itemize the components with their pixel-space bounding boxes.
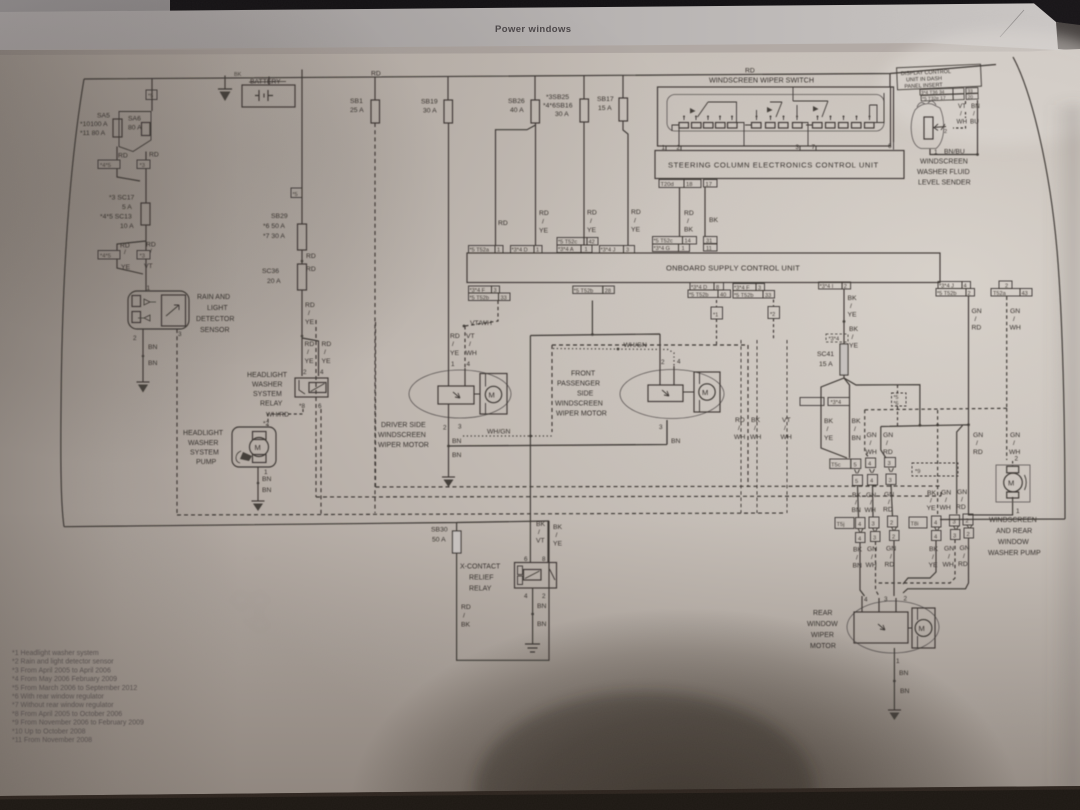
svg-text:*2: *2	[770, 312, 775, 318]
dashed wire T52b33 to driver motor pin 4	[465, 301, 498, 369]
svg-text:WIPER: WIPER	[811, 632, 834, 639]
svg-text:1: 1	[264, 469, 268, 476]
svg-text:33: 33	[501, 296, 507, 302]
solid bus to pump	[881, 425, 1013, 515]
footnotes	[12, 650, 144, 744]
switch bank 2	[745, 102, 808, 146]
fuse SB29	[298, 224, 307, 250]
svg-text:3: 3	[872, 522, 875, 528]
svg-text:RELAY: RELAY	[260, 401, 283, 408]
wire SB17 to J3 connector	[623, 121, 628, 246]
svg-text:WH: WH	[781, 434, 792, 441]
wire SC41 split left/right	[821, 375, 920, 458]
svg-text:4: 4	[677, 359, 681, 366]
svg-text:YE: YE	[587, 227, 597, 234]
svg-text:1: 1	[682, 246, 685, 252]
svg-text:40: 40	[720, 293, 726, 299]
labels below T5j	[853, 546, 897, 570]
svg-text:5: 5	[855, 479, 858, 485]
svg-text:RD: RD	[306, 266, 316, 273]
svg-text:BK: BK	[461, 622, 471, 629]
svg-text:BK: BK	[927, 490, 937, 497]
svg-text:2: 2	[1015, 456, 1019, 463]
svg-text:VT: VT	[958, 103, 966, 110]
svg-text:30 A: 30 A	[423, 108, 437, 115]
svg-text:40 A: 40 A	[510, 107, 524, 114]
svg-text:BK: BK	[751, 417, 761, 424]
battery ground	[218, 76, 232, 102]
svg-text:SIDE: SIDE	[577, 391, 594, 398]
svg-text:*5 T52b: *5 T52b	[937, 291, 957, 297]
svg-text:RD: RD	[450, 333, 460, 340]
svg-text:SB17: SB17	[597, 96, 614, 103]
svg-text:*5 T32e 17: *5 T32e 17	[922, 95, 946, 102]
fuse SC17/SC13	[141, 203, 150, 225]
svg-text:*10 Up to October 2008: *10 Up to October 2008	[12, 728, 86, 735]
svg-text:6: 6	[524, 556, 528, 563]
svg-text:3: 3	[953, 534, 956, 540]
svg-text:/: /	[854, 426, 856, 433]
fuse SB26	[531, 100, 540, 123]
svg-text:SENSOR: SENSOR	[200, 327, 230, 334]
svg-text:28: 28	[605, 289, 611, 295]
wiper motor driver side V	[409, 368, 511, 418]
svg-text:/: /	[590, 218, 592, 225]
svg-text:VT: VT	[144, 263, 153, 270]
svg-text:WASHER FLUID: WASHER FLUID	[917, 169, 970, 176]
svg-text:RD: RD	[118, 153, 128, 160]
svg-text:*6 With rear window regulator: *6 With rear window regulator	[12, 694, 104, 701]
option box *3	[137, 160, 150, 169]
svg-text:*8 From April 2005 to October: *8 From April 2005 to October 2006	[12, 711, 122, 718]
svg-text:*7 Without rear window regulat: *7 Without rear window regulator	[12, 702, 114, 709]
svg-text:BK: BK	[848, 295, 858, 302]
svg-text:*3*4 A: *3*4 A	[558, 247, 574, 253]
svg-text:/: /	[961, 497, 963, 504]
svg-text:BU: BU	[970, 119, 979, 126]
svg-text:SC36: SC36	[262, 268, 279, 275]
svg-text:/: /	[870, 500, 872, 507]
svg-text:LEVEL SENDER: LEVEL SENDER	[918, 180, 971, 187]
svg-text:GN: GN	[1010, 432, 1020, 439]
svg-text:HEADLIGHT: HEADLIGHT	[247, 372, 288, 379]
svg-text:/: /	[324, 349, 326, 356]
svg-text:DETECTOR: DETECTOR	[196, 316, 234, 323]
svg-text:BK: BK	[709, 217, 719, 224]
svg-text:*1: *1	[713, 313, 718, 319]
svg-text:T20d: T20d	[661, 182, 674, 188]
svg-text:*4*5: *4*5	[100, 254, 111, 260]
svg-text:RD: RD	[305, 341, 315, 348]
svg-text:WASHER PUMP: WASHER PUMP	[988, 550, 1041, 557]
svg-text:DRIVER SIDE: DRIVER SIDE	[381, 422, 426, 429]
wire SB29 feed	[301, 70, 303, 225]
svg-text:SB1: SB1	[350, 98, 363, 105]
svg-text:WH: WH	[750, 434, 761, 441]
wire SCECU 18 to OSCU	[679, 188, 681, 237]
fuse SC36	[298, 264, 307, 290]
svg-text:RD: RD	[631, 209, 641, 216]
svg-text:18: 18	[686, 182, 692, 188]
svg-text:4: 4	[467, 361, 471, 368]
svg-text:/: /	[827, 426, 829, 433]
svg-text:/: /	[886, 440, 888, 447]
wire pump to ground	[257, 467, 259, 501]
svg-text:BN: BN	[899, 670, 909, 677]
svg-text:RD: RD	[149, 152, 159, 159]
bottom dark table strip	[0, 786, 1080, 810]
X-contact relief relay enclosure with SB30	[457, 521, 549, 661]
connector *3*4 J 3	[600, 246, 635, 254]
svg-text:*5: *5	[293, 192, 298, 198]
svg-text:RD: RD	[306, 253, 316, 260]
wire relay pin4 to ground BN	[532, 588, 534, 644]
svg-text:WIPER MOTOR: WIPER MOTOR	[378, 442, 429, 449]
svg-text:/: /	[855, 500, 857, 507]
svg-text:/: /	[948, 554, 950, 561]
rear window wiper motor V	[847, 596, 939, 653]
fuse SB1	[371, 100, 380, 123]
wire SB25 to A1 connector	[583, 122, 585, 246]
svg-text:GN: GN	[866, 492, 876, 499]
connector *3*4 D 8 / *5 T52b 40	[690, 283, 724, 291]
dashed wire GN/WH from T52a43	[1006, 297, 1008, 409]
svg-text:*4*5: *4*5	[100, 163, 111, 169]
svg-text:BN: BN	[853, 563, 863, 570]
svg-text:YE: YE	[450, 350, 460, 357]
wire down to T8i pin3	[957, 426, 963, 515]
svg-text:M: M	[919, 624, 925, 633]
wire rear motor pin1 to ground	[893, 648, 895, 710]
svg-text:1: 1	[497, 248, 500, 254]
svg-text:RD: RD	[498, 220, 508, 227]
connector *3*4 F 3 / *5 T52b 33 (second)	[733, 284, 765, 291]
svg-text:*3: *3	[140, 254, 145, 260]
svg-text:SB29: SB29	[271, 213, 288, 220]
washer pump windscreen and rear window	[996, 461, 1030, 502]
svg-text:/: /	[930, 498, 932, 505]
svg-text:/: /	[634, 218, 636, 225]
wires T8i row2 to rear motor	[903, 538, 969, 593]
svg-text:YE: YE	[849, 343, 859, 350]
svg-text:GN: GN	[1010, 308, 1020, 315]
svg-text:RD: RD	[684, 210, 694, 217]
dotted wire WH/GN driver pin3 to passenger	[463, 435, 553, 437]
svg-text:*11 80 A: *11 80 A	[80, 130, 106, 137]
svg-text:*11 From November 2008: *11 From November 2008	[12, 737, 92, 744]
svg-text:*5 T52b: *5 T52b	[574, 289, 594, 295]
svg-text:3: 3	[888, 461, 891, 467]
svg-text:T5j: T5j	[837, 522, 845, 528]
svg-text:BK: BK	[553, 524, 563, 531]
display control unit in dash panel insert	[897, 64, 982, 90]
fuse block SA5/SA6	[113, 112, 151, 152]
svg-text:15 A: 15 A	[819, 361, 833, 368]
svg-text:/: /	[945, 497, 947, 504]
svg-text:BN: BN	[262, 487, 272, 494]
ground (pump)	[252, 501, 265, 511]
svg-text:WH: WH	[866, 449, 877, 456]
svg-text:/: /	[976, 440, 978, 447]
svg-text:GN: GN	[957, 489, 967, 496]
svg-text:10 A: 10 A	[120, 223, 134, 230]
wire SCECU 17 to OSCU	[704, 187, 706, 237]
svg-text:2: 2	[966, 519, 969, 525]
upper page band	[0, 3, 1080, 52]
OSCU bottom connector *3*4 F3 / *5 T52b 33	[469, 286, 500, 293]
dashed box front passenger motor	[552, 345, 748, 487]
svg-text:GN: GN	[941, 490, 951, 497]
svg-text:SYSTEM: SYSTEM	[190, 450, 219, 457]
svg-text:*3: *3	[140, 163, 145, 169]
svg-text:/: /	[850, 303, 852, 310]
relay X-contact relief	[515, 563, 557, 589]
svg-text:WINDSCREEN WIPER SWITCH: WINDSCREEN WIPER SWITCH	[709, 76, 814, 85]
svg-text:VT: VT	[466, 333, 475, 340]
BN joining wire passenger to driver ground	[449, 420, 668, 446]
connector *3*4 I 2	[819, 282, 851, 289]
svg-text:*10100 A: *10100 A	[80, 121, 108, 128]
option box on SB29 feed	[291, 188, 302, 198]
connector *5 T52c 42 over *3*4 A 1	[557, 238, 598, 246]
svg-text:SA6: SA6	[128, 116, 141, 123]
svg-text:3: 3	[178, 331, 182, 338]
svg-text:RD: RD	[735, 417, 745, 424]
svg-text:SB26: SB26	[508, 98, 525, 105]
svg-text:*3*4: *3*4	[829, 337, 840, 343]
svg-text:GN: GN	[973, 432, 983, 439]
svg-text:BK: BK	[853, 547, 863, 554]
dashed wire to T8i pin4	[937, 410, 939, 514]
svg-text:2: 2	[944, 129, 947, 135]
svg-text:1: 1	[896, 658, 900, 665]
svg-text:/: /	[463, 613, 465, 620]
svg-text:33: 33	[765, 293, 771, 299]
option box *4*5	[98, 160, 120, 169]
svg-text:YE: YE	[305, 358, 315, 365]
svg-text:WINDOW: WINDOW	[998, 539, 1029, 546]
svg-text:15 A: 15 A	[598, 105, 612, 112]
svg-text:/: /	[538, 529, 540, 536]
battery B	[242, 77, 295, 108]
svg-text:/: /	[960, 111, 962, 118]
svg-text:2: 2	[133, 335, 137, 342]
svg-text:YE: YE	[553, 541, 563, 548]
svg-text:*2 Rain and light detector sen: *2 Rain and light detector sensor	[12, 659, 114, 666]
svg-text:BN: BN	[852, 435, 862, 442]
svg-text:FRONT: FRONT	[571, 371, 596, 378]
svg-text:HEADLIGHT: HEADLIGHT	[183, 430, 224, 437]
svg-text:50 A: 50 A	[432, 537, 446, 544]
svg-text:BN: BN	[852, 507, 862, 514]
svg-text:WH/RD: WH/RD	[266, 412, 289, 419]
relay headlight washer system	[295, 378, 328, 397]
svg-text:1: 1	[934, 149, 938, 156]
wire bus to SA fuses	[151, 79, 153, 112]
svg-text:WH: WH	[1010, 325, 1021, 332]
svg-text:BK: BK	[852, 418, 862, 425]
connector 3*4 T36 34/33	[920, 88, 978, 103]
svg-text:/: /	[890, 554, 892, 561]
svg-text:GN: GN	[886, 546, 896, 553]
svg-text:YE: YE	[305, 319, 315, 326]
onboard supply control unit	[467, 253, 940, 283]
svg-text:6: 6	[888, 143, 892, 150]
svg-text:WH/GN: WH/GN	[487, 429, 510, 436]
wire BK/BN branch	[844, 378, 850, 458]
svg-text:RD: RD	[745, 68, 755, 75]
svg-text:*5: *5	[148, 94, 153, 100]
wire driver motor pin2 to ground, BN	[448, 404, 450, 477]
svg-text:YE: YE	[631, 227, 641, 234]
svg-text:1: 1	[1016, 508, 1020, 515]
svg-text:/: /	[307, 349, 309, 356]
svg-text:GN: GN	[867, 432, 877, 439]
svg-text:4: 4	[320, 369, 324, 376]
svg-text:5 A: 5 A	[122, 204, 132, 211]
svg-text:WINDOW: WINDOW	[807, 621, 838, 628]
svg-text:VT: VT	[536, 538, 545, 545]
svg-text:/: /	[871, 554, 873, 561]
svg-text:*3*4 J: *3*4 J	[601, 248, 616, 254]
svg-text:BN: BN	[671, 438, 681, 445]
svg-text:/: /	[469, 341, 471, 348]
svg-text:WH: WH	[943, 562, 954, 569]
dashed wires RD/WH BK/WH VT/WH	[740, 340, 742, 513]
fuse SB30	[453, 531, 462, 553]
svg-text:/: /	[308, 310, 310, 317]
svg-text:M: M	[255, 443, 261, 452]
connector row boxes below split	[800, 398, 824, 406]
svg-text:BN: BN	[452, 452, 462, 459]
svg-text:BN/BU: BN/BU	[944, 149, 965, 156]
svg-text:20 A: 20 A	[267, 278, 281, 285]
svg-text:/: /	[932, 554, 934, 561]
svg-text:*3SB25: *3SB25	[546, 94, 569, 101]
fuse SB25/SB16	[580, 99, 589, 122]
svg-text:*8: *8	[299, 403, 305, 410]
option box *1	[711, 307, 723, 319]
svg-text:20: 20	[968, 94, 974, 100]
svg-text:SC41: SC41	[817, 351, 834, 358]
svg-text:M: M	[489, 391, 495, 400]
labels above T8i	[927, 489, 968, 512]
svg-text:2: 2	[967, 532, 970, 538]
svg-text:BN: BN	[452, 438, 462, 445]
svg-text:*5 T52b: *5 T52b	[470, 296, 490, 302]
labels below T8i	[929, 545, 970, 569]
svg-text:LIGHT: LIGHT	[207, 305, 228, 312]
wire T52b28 to passenger motor	[530, 301, 660, 563]
svg-text:/: /	[1013, 440, 1015, 447]
dotted wire WH/GN to passenger pin 4	[553, 349, 674, 367]
connector *5 T52b 28	[573, 286, 615, 294]
svg-text:GN: GN	[883, 432, 893, 439]
faint show-through ghosts	[200, 120, 850, 640]
ground (rain sensor)	[137, 382, 150, 393]
svg-text:RD: RD	[958, 561, 968, 568]
svg-text:SYSTEM: SYSTEM	[253, 391, 282, 398]
dashed wire SB1 down	[374, 123, 376, 513]
svg-text:7: 7	[812, 144, 816, 151]
svg-text:WINDSCREEN: WINDSCREEN	[555, 401, 603, 408]
svg-text:1: 1	[536, 248, 539, 254]
svg-text:2: 2	[542, 593, 546, 600]
wire SB26 to D1 connector	[535, 125, 537, 246]
svg-text:/: /	[738, 425, 740, 432]
svg-text:ONBOARD SUPPLY CONTROL UNIT: ONBOARD SUPPLY CONTROL UNIT	[666, 264, 800, 273]
connector T5c row	[830, 458, 896, 486]
svg-text:T52a: T52a	[993, 291, 1007, 297]
svg-text:80 A: 80 A	[128, 125, 142, 132]
svg-text:2: 2	[661, 359, 665, 366]
svg-text:M: M	[1008, 479, 1014, 488]
dark top-right corner	[1030, 0, 1080, 26]
dashed wire relay pin 8 to pump	[268, 409, 303, 426]
svg-text:2: 2	[904, 596, 908, 603]
svg-text:4: 4	[864, 597, 868, 604]
steering column electronics control unit	[655, 151, 904, 179]
svg-text:YE: YE	[927, 505, 937, 512]
svg-text:BK: BK	[234, 72, 242, 78]
svg-text:RAIN AND: RAIN AND	[197, 294, 230, 301]
svg-text:*5 From March 2006 to Septembe: *5 From March 2006 to September 2012	[12, 685, 137, 692]
fuse SB19	[444, 100, 453, 123]
svg-text:SB19: SB19	[421, 99, 438, 106]
svg-text:MOTOR: MOTOR	[810, 643, 836, 650]
svg-text:*3 SC17: *3 SC17	[109, 195, 135, 202]
svg-text:/: /	[888, 499, 890, 506]
svg-text:AND REAR: AND REAR	[996, 528, 1032, 535]
connector *3*4 D 1	[511, 246, 543, 254]
wire BN rain sensor to ground	[142, 329, 144, 382]
svg-text:/: /	[975, 316, 977, 323]
svg-text:BK: BK	[536, 521, 546, 528]
dashed enclosure headlight washer system	[177, 513, 785, 515]
svg-text:WINDSCREEN: WINDSCREEN	[989, 517, 1037, 524]
svg-text:WASHER: WASHER	[188, 440, 218, 447]
svg-text:*4*5 SC13: *4*5 SC13	[100, 214, 132, 221]
svg-text:*6 50 A: *6 50 A	[263, 223, 285, 230]
svg-text:RD: RD	[539, 210, 549, 217]
svg-text:BK: BK	[824, 418, 834, 425]
connector *3*4 J 4 / *5 T52b 2	[938, 282, 971, 289]
svg-text:*5 T52b: *5 T52b	[689, 293, 709, 299]
svg-text:*4*6SB16: *4*6SB16	[543, 103, 573, 110]
svg-text:YE: YE	[322, 358, 332, 365]
svg-text:BN: BN	[148, 344, 158, 351]
fuse SB17	[619, 98, 628, 121]
svg-text:/: /	[556, 532, 558, 539]
svg-text:4: 4	[524, 593, 528, 600]
svg-text:BATTERY: BATTERY	[250, 79, 281, 86]
svg-text:/: /	[124, 249, 126, 256]
svg-text:RD: RD	[305, 302, 315, 309]
wires sender: VT/WH dashed, BN/BU solid	[953, 101, 966, 128]
svg-text:/: /	[870, 440, 872, 447]
windscreen washer fluid level sender	[911, 101, 946, 149]
wires T5j row2 to rear motor	[860, 541, 894, 597]
svg-text:RD: RD	[885, 562, 895, 569]
svg-text:RD: RD	[973, 449, 983, 456]
wires below SA fuses	[117, 147, 146, 204]
svg-text:3: 3	[873, 536, 876, 542]
ground (driver wiper motor)	[442, 477, 455, 487]
svg-text:RD: RD	[883, 507, 893, 514]
svg-text:YE: YE	[848, 312, 858, 319]
connector T20d 18 / 17	[659, 180, 717, 188]
svg-text:BN: BN	[537, 603, 547, 610]
